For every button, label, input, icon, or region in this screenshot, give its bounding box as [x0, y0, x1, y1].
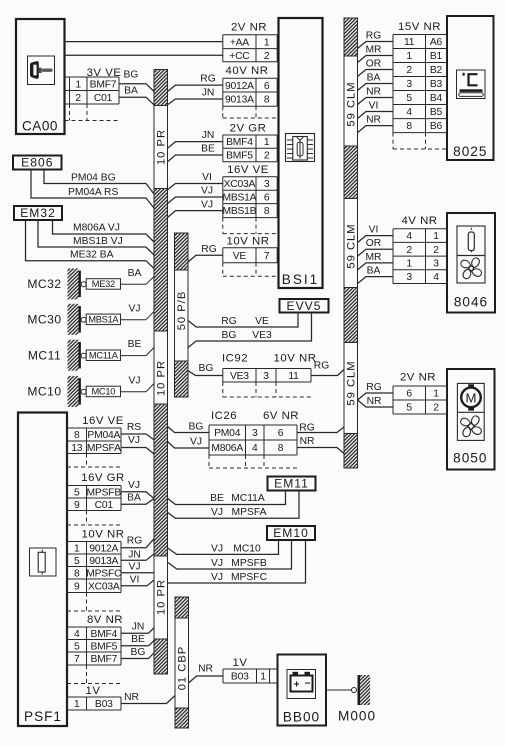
svg-text:5: 5	[74, 487, 80, 498]
svg-text:PM04: PM04	[214, 428, 241, 439]
svg-text:MC10: MC10	[91, 387, 115, 397]
svg-text:1V: 1V	[86, 685, 101, 697]
svg-text:1: 1	[75, 79, 81, 90]
svg-text:RG: RG	[127, 536, 142, 547]
svg-text:PM04A RS: PM04A RS	[68, 187, 118, 198]
connector table 1V on PSF1 (1 B03)	[67, 685, 121, 710]
svg-text:2: 2	[264, 151, 270, 162]
svg-text:40V NR: 40V NR	[226, 65, 269, 77]
svg-text:7: 7	[74, 654, 80, 665]
connector EM11	[268, 476, 316, 490]
svg-text:VE3: VE3	[230, 371, 249, 382]
svg-text:59 CLM: 59 CLM	[346, 223, 358, 268]
fan unit 8046	[447, 213, 495, 313]
svg-text:13: 13	[71, 443, 83, 454]
svg-text:9012A: 9012A	[225, 81, 254, 92]
svg-text:01 CBP: 01 CBP	[177, 646, 189, 691]
svg-text:RG: RG	[366, 382, 381, 393]
wire RG (59 CLM bus to 8025 pin A6)	[358, 30, 394, 48]
svg-text:RG: RG	[299, 423, 314, 434]
svg-text:MBS1B VJ: MBS1B VJ	[73, 236, 123, 247]
svg-text:BMF4: BMF4	[226, 137, 253, 148]
svg-text:NR: NR	[124, 692, 139, 703]
svg-text:1: 1	[433, 231, 439, 242]
wire PM04 BG (bus to IC26)	[168, 422, 210, 433]
wire XC03A VI (bus to BSI1)	[168, 172, 223, 190]
wire RG (59 CLM bus to 8050 pin 1)	[358, 382, 394, 400]
svg-text:VJ: VJ	[211, 572, 223, 583]
wire C01 BA (CA00 pin2 to bus)	[119, 86, 154, 105]
svg-text:MC32: MC32	[27, 277, 61, 291]
svg-text:16V GR: 16V GR	[81, 472, 125, 484]
svg-text:PM04 BG: PM04 BG	[71, 173, 116, 184]
svg-text:RG: RG	[200, 74, 215, 85]
svg-text:MPSFA: MPSFA	[87, 443, 121, 454]
svg-text:10V NR: 10V NR	[274, 353, 317, 365]
svg-text:MR: MR	[365, 252, 381, 263]
svg-text:5: 5	[74, 641, 80, 652]
svg-text:CA00: CA00	[22, 119, 58, 134]
wire MPSFA VJ (bus to EM11)	[168, 491, 300, 519]
svg-text:2: 2	[406, 65, 412, 76]
connector table 16V GR on PSF1 (5 MPSFB / 9 C01)	[67, 472, 125, 525]
wire PM04A RS (PSF1 to bus)	[121, 422, 154, 440]
svg-text:A6: A6	[430, 37, 443, 48]
wire PM04 BG (E806 to bus)	[44, 170, 154, 195]
svg-text:EM10: EM10	[273, 526, 309, 540]
svg-text:BG: BG	[222, 330, 237, 341]
svg-text:9012A: 9012A	[89, 543, 118, 554]
connector IC92 table 10V NR (VE3 3 11)	[222, 353, 316, 398]
wire RG (IC92 to 59 CLM bus)	[311, 361, 344, 376]
wire 9012A RG (PSF1 to bus)	[121, 536, 154, 548]
wire BMF5 BE (PSF1 to bus)	[121, 634, 154, 646]
svg-text:M806A VJ: M806A VJ	[73, 223, 120, 234]
svg-text:VE3: VE3	[252, 330, 272, 341]
svg-text:B2: B2	[430, 65, 443, 76]
ground M000	[326, 675, 376, 724]
svg-text:2: 2	[433, 245, 439, 256]
svg-text:3: 3	[264, 179, 270, 190]
svg-text:MC10: MC10	[27, 385, 61, 399]
svg-text:1: 1	[264, 37, 270, 48]
svg-text:B6: B6	[430, 121, 443, 132]
wire C01 BA (PSF1 to bus)	[121, 492, 154, 504]
display unit 8025	[447, 16, 494, 160]
svg-text:BA: BA	[367, 265, 381, 276]
wire MBS1A VJ (bus to BSI1)	[168, 186, 223, 204]
wire BMF4 JN (PSF1 to bus)	[121, 622, 154, 634]
svg-text:M: M	[466, 390, 477, 405]
svg-text:VJ: VJ	[201, 199, 213, 210]
wire MBS1B VJ (bus to BSI1)	[168, 199, 223, 217]
svg-text:5: 5	[74, 556, 80, 567]
wire MC10 VJ (bus to EM10)	[168, 540, 279, 554]
svg-text:VE: VE	[233, 251, 247, 262]
svg-text:MPSFB: MPSFB	[87, 487, 122, 498]
wire MR (59 CLM bus to 8046 pin 3)	[358, 252, 394, 270]
svg-text:RS: RS	[127, 422, 141, 433]
svg-text:4: 4	[252, 443, 258, 454]
svg-text:MBS1A: MBS1A	[222, 193, 256, 204]
svg-text:10 PR: 10 PR	[156, 360, 168, 396]
svg-text:E806: E806	[21, 155, 53, 169]
svg-text:9: 9	[74, 581, 80, 592]
svg-text:JN: JN	[202, 88, 215, 99]
svg-text:OR: OR	[366, 58, 381, 69]
svg-text:BE: BE	[201, 144, 215, 155]
svg-text:B1: B1	[430, 51, 443, 62]
svg-text:ME32 BA: ME32 BA	[70, 249, 114, 260]
svg-text:BE: BE	[210, 493, 224, 504]
svg-text:BG: BG	[131, 647, 146, 658]
svg-text:BMF7: BMF7	[90, 79, 117, 90]
svg-text:MBS1B: MBS1B	[222, 206, 256, 217]
svg-text:3: 3	[252, 428, 258, 439]
wire NR (59 CLM bus to 8050 pin 2)	[358, 396, 394, 407]
svg-text:59 CLM: 59 CLM	[346, 81, 358, 126]
svg-text:BE: BE	[131, 634, 145, 645]
connector table 40V NR on BSI1 (9012A 6 / 9013A 8)	[223, 65, 277, 118]
svg-text:1V: 1V	[233, 657, 248, 669]
wire VI (59 CLM bus to 8025 pin B5)	[358, 100, 394, 118]
8025 icon	[457, 70, 486, 99]
svg-text:1: 1	[260, 672, 266, 683]
svg-text:RG: RG	[201, 244, 216, 255]
svg-text:2V NR: 2V NR	[231, 21, 267, 33]
wire MPSFC VJ (PSF1 to bus)	[121, 561, 154, 573]
svg-text:BB00: BB00	[283, 710, 320, 725]
wire VI (59 CLM bus to 8046 pin 1)	[358, 224, 394, 242]
wire +AA (CA00 to BSI1)	[65, 41, 223, 43]
wire 9013A JN (PSF1 to bus)	[121, 549, 154, 560]
connector table 10V NR on PSF1 (1 9012A / 5 9013A / 8 MPSFC / 9 XC03A)	[67, 529, 124, 612]
8050 icon (motor + fan)	[457, 383, 484, 440]
svg-text:−: −	[305, 679, 311, 690]
wire VE RG (EVV5 to 50 P/B bus)	[188, 313, 298, 328]
svg-text:NR: NR	[300, 436, 315, 447]
fuse box PSF1	[18, 413, 67, 727]
wire 9012A RG (bus to BSI1)	[168, 74, 223, 92]
wire BMF5 BE (bus to BSI1)	[168, 144, 223, 162]
svg-text:6V NR: 6V NR	[263, 410, 299, 422]
svg-text:BA: BA	[127, 492, 141, 503]
svg-text:6: 6	[264, 81, 270, 92]
svg-text:B03: B03	[95, 699, 113, 710]
wire NR (IC26 to 59 CLM bus)	[297, 436, 344, 454]
wire B03 NR (01 CBP bus to battery table)	[189, 664, 224, 684]
svg-text:MPSFA: MPSFA	[232, 507, 267, 518]
svg-text:2: 2	[406, 245, 412, 256]
svg-text:3: 3	[406, 272, 412, 283]
svg-text:IC26: IC26	[211, 410, 237, 422]
svg-text:MC30: MC30	[27, 313, 61, 327]
svg-text:RG: RG	[366, 30, 381, 41]
svg-text:VI: VI	[369, 224, 379, 235]
wire VE3 BG (EVV5 to 50 P/B bus)	[188, 313, 312, 348]
svg-text:B4: B4	[430, 93, 443, 104]
BB00 battery icon	[287, 670, 316, 699]
svg-text:JN: JN	[128, 549, 141, 560]
svg-text:16V VE: 16V VE	[82, 415, 124, 427]
svg-text:MPSFB: MPSFB	[231, 558, 267, 569]
svg-text:4: 4	[406, 231, 412, 242]
svg-text:6: 6	[278, 428, 284, 439]
svg-text:11: 11	[404, 37, 415, 48]
body control unit BSI1	[279, 18, 323, 288]
svg-text:8046: 8046	[454, 295, 488, 310]
svg-text:2V NR: 2V NR	[400, 371, 436, 383]
svg-text:RG: RG	[314, 361, 329, 372]
wire RG (IC26 to 59 CLM bus)	[297, 423, 344, 434]
solenoid valve EVV5	[280, 299, 329, 313]
svg-text:MPSFC: MPSFC	[86, 568, 122, 579]
svg-text:+CC: +CC	[229, 51, 250, 62]
svg-text:6: 6	[264, 193, 270, 204]
connector E806	[13, 155, 62, 169]
svg-text:BSI1: BSI1	[282, 272, 319, 287]
svg-text:+: +	[294, 680, 300, 691]
svg-text:JN: JN	[202, 130, 215, 141]
svg-text:8: 8	[264, 206, 270, 217]
svg-text:BG: BG	[189, 422, 204, 433]
svg-text:4: 4	[433, 272, 439, 283]
connector table 2V NR on 8050	[393, 371, 447, 414]
connector table 3V VE on CA00 (pins 1 BMF7 / 2 C01)	[65, 67, 122, 121]
svg-text:VJ: VJ	[211, 507, 223, 518]
wire OR (59 CLM bus to 8025 pin B2)	[358, 58, 394, 76]
svg-text:BMF4: BMF4	[90, 629, 117, 640]
svg-text:10 PR: 10 PR	[156, 579, 168, 615]
svg-text:5: 5	[406, 93, 412, 104]
ignition switch CA00	[16, 19, 65, 134]
svg-text:8: 8	[74, 568, 80, 579]
svg-text:NR: NR	[366, 86, 381, 97]
svg-text:11: 11	[288, 371, 299, 382]
svg-text:1: 1	[406, 51, 412, 62]
svg-text:3: 3	[433, 259, 439, 270]
svg-text:VJ: VJ	[201, 186, 213, 197]
svg-text:BMF7: BMF7	[90, 654, 117, 665]
interconnect bus 59 CLM	[344, 18, 358, 468]
wire 9013A JN (bus to BSI1)	[168, 88, 223, 105]
svg-text:10V NR: 10V NR	[82, 529, 125, 541]
svg-text:1: 1	[74, 699, 80, 710]
svg-text:PM04A: PM04A	[87, 430, 120, 441]
connector table 16V VE on BSI1 (XC03A 3 / MBS1A 6 / MBS1B 8)	[222, 164, 277, 234]
connector table 10V NR on BSI1 (VE 7)	[223, 235, 277, 276]
svg-text:BG: BG	[124, 70, 139, 81]
PSF1 fuse icon	[30, 548, 57, 576]
motor fan unit 8050	[447, 369, 495, 470]
ground MC30 (MBS1A VJ)	[27, 303, 154, 335]
svg-text:C01: C01	[94, 93, 113, 104]
wire B03 NR (PSF1 to 01 CBP bus)	[121, 692, 175, 704]
svg-text:EM32: EM32	[20, 206, 56, 220]
svg-text:1: 1	[264, 137, 270, 148]
ground MC10 (MC10 VJ)	[27, 375, 154, 407]
svg-text:3: 3	[263, 371, 269, 382]
svg-text:EVV5: EVV5	[287, 299, 322, 313]
battery BB00	[278, 655, 327, 726]
svg-text:2: 2	[75, 93, 81, 104]
svg-text:59 CLM: 59 CLM	[346, 360, 358, 405]
svg-text:OR: OR	[366, 238, 381, 249]
svg-text:VJ: VJ	[128, 435, 140, 446]
svg-text:9013A: 9013A	[89, 556, 118, 567]
wire BMF7 BG (CA00 pin1 to bus)	[119, 70, 154, 92]
svg-text:1: 1	[433, 389, 439, 400]
svg-text:B5: B5	[430, 107, 443, 118]
svg-text:MR: MR	[365, 44, 381, 55]
wire XC03A VI (PSF1 to bus)	[121, 574, 154, 586]
svg-text:BMF5: BMF5	[90, 641, 117, 652]
wire ME32 BA (EM32 to bus)	[26, 220, 155, 269]
wire MPSFB VJ (bus to EM10)	[168, 540, 292, 569]
svg-text:50 P/B: 50 P/B	[176, 291, 188, 331]
svg-text:MC11A: MC11A	[89, 351, 119, 361]
wire M806A VJ (bus to IC26)	[168, 437, 210, 448]
wire MBS1B VJ (EM32 to bus)	[38, 220, 154, 255]
wire MPSFC VJ (bus to EM10)	[168, 540, 306, 583]
svg-text:8050: 8050	[453, 451, 487, 466]
wire MPSFB VJ (PSF1 to bus)	[121, 480, 154, 499]
svg-text:BA: BA	[367, 72, 381, 83]
wire MR (59 CLM bus to 8025 pin B1)	[358, 44, 394, 62]
svg-text:10V NR: 10V NR	[227, 235, 270, 247]
connector table 2V NR on BSI1 (+AA 1 / +CC 2)	[223, 21, 277, 62]
interconnect bus 50 P/B	[175, 233, 189, 397]
svg-text:8: 8	[74, 430, 80, 441]
svg-text:7: 7	[264, 251, 270, 262]
svg-text:MC10: MC10	[233, 543, 261, 554]
svg-text:4V NR: 4V NR	[401, 215, 437, 227]
svg-text:C01: C01	[95, 500, 114, 511]
wire BMF7 BG (PSF1 to bus)	[121, 647, 154, 659]
svg-text:ME32: ME32	[92, 279, 115, 289]
svg-text:MBS1A: MBS1A	[88, 315, 119, 325]
svg-text:MC11: MC11	[28, 349, 61, 363]
svg-text:VE: VE	[255, 316, 269, 327]
connector table 4V NR on 8046	[393, 215, 447, 284]
svg-text:NR: NR	[366, 114, 381, 125]
connector IC26 table 6V NR (PM04 3 6 / M806A 4 8)	[209, 410, 299, 468]
svg-text:BE: BE	[128, 339, 142, 350]
svg-text:VJ: VJ	[211, 543, 223, 554]
svg-text:9013A: 9013A	[225, 95, 254, 106]
wire M806A VJ (EM32 to bus)	[53, 220, 155, 242]
wire NR (59 CLM bus to 8025 pin B6)	[358, 114, 394, 132]
svg-text:1: 1	[74, 543, 80, 554]
svg-text:8: 8	[406, 121, 412, 132]
svg-text:EM11: EM11	[274, 476, 309, 490]
wire NR (59 CLM bus to 8025 pin B4)	[358, 86, 394, 104]
svg-text:4: 4	[74, 629, 80, 640]
svg-text:BA: BA	[128, 268, 142, 279]
ground MC32 (ME32 BA)	[27, 268, 154, 300]
svg-text:9: 9	[74, 500, 80, 511]
svg-text:VJ: VJ	[211, 558, 223, 569]
svg-text:M000: M000	[338, 709, 376, 724]
BSI1 icon	[286, 134, 315, 162]
wire MC11A BE (bus to EM11)	[168, 491, 286, 505]
svg-text:8: 8	[264, 95, 270, 106]
connector table 2V GR on BSI1 (BMF4 1 / BMF5 2)	[223, 122, 277, 162]
wire BA (59 CLM bus to 8025 pin B3)	[358, 72, 394, 90]
svg-text:8025: 8025	[453, 144, 487, 159]
8046 icon (resistor + fan)	[457, 226, 485, 283]
svg-text:1: 1	[406, 259, 412, 270]
svg-text:4: 4	[406, 107, 412, 118]
svg-text:MC11A: MC11A	[231, 493, 265, 504]
svg-text:M806A: M806A	[211, 443, 243, 454]
connector EM32	[14, 206, 62, 220]
svg-text:XC03A: XC03A	[224, 179, 256, 190]
wire +CC (CA00 to BSI1)	[65, 54, 223, 56]
wire BMF4 JN (bus to BSI1)	[168, 130, 223, 148]
connector table 16V VE on PSF1 (8 PM04A / 13 MPSFA)	[67, 415, 124, 467]
svg-text:B3: B3	[430, 79, 443, 90]
connector EM10	[267, 526, 315, 540]
connector table 1V B03 (battery feed)	[223, 657, 278, 683]
svg-text:2: 2	[433, 403, 439, 414]
svg-text:VJ: VJ	[128, 561, 140, 572]
wire OR (59 CLM bus to 8046 pin 2)	[358, 238, 394, 256]
svg-text:IC92: IC92	[222, 353, 248, 365]
svg-text:NR: NR	[198, 664, 213, 675]
wire BA (59 CLM bus to 8046 pin 4)	[358, 265, 394, 283]
interconnect bus 01 CBP	[175, 597, 189, 728]
svg-text:BG: BG	[199, 363, 214, 374]
svg-text:MPSFC: MPSFC	[231, 572, 268, 583]
svg-text:VI: VI	[369, 100, 379, 111]
svg-text:2V GR: 2V GR	[230, 122, 267, 134]
svg-text:VJ: VJ	[190, 437, 202, 448]
svg-text:BMF5: BMF5	[226, 151, 253, 162]
svg-text:NR: NR	[367, 396, 382, 407]
svg-text:+AA: +AA	[230, 37, 249, 48]
svg-text:JN: JN	[132, 622, 145, 633]
svg-text:B03: B03	[231, 672, 249, 683]
svg-text:VJ: VJ	[128, 375, 140, 386]
connector table 15V NR on 8025	[393, 21, 447, 149]
svg-text:VJ: VJ	[128, 303, 140, 314]
svg-text:8: 8	[278, 443, 284, 454]
svg-text:VI: VI	[130, 574, 140, 585]
CA00 key icon	[28, 56, 55, 85]
wire VE3 BG (50 P/B bus to IC92)	[188, 363, 223, 376]
svg-text:VI: VI	[202, 172, 212, 183]
svg-text:RG: RG	[221, 316, 236, 327]
connector table 8V NR on PSF1 (4 BMF4 / 5 BMF5 / 7 BMF7)	[67, 614, 123, 684]
svg-text:XC03A: XC03A	[88, 581, 120, 592]
svg-text:15V NR: 15V NR	[398, 21, 441, 33]
wire PM04A RS (E806 to bus)	[31, 170, 154, 209]
svg-text:BA: BA	[124, 86, 138, 97]
svg-text:2: 2	[264, 51, 270, 62]
wire VE RG (50 P/B bus to BSI1 pin7)	[188, 244, 223, 262]
svg-text:3: 3	[406, 79, 412, 90]
ground MC11 (MC11A BE)	[28, 339, 154, 371]
svg-text:6: 6	[406, 389, 412, 400]
interconnect bus 10 PR	[154, 70, 168, 675]
wire MPSFA VJ (PSF1 to bus)	[121, 435, 154, 454]
svg-text:VJ: VJ	[128, 480, 140, 491]
svg-text:10 PR: 10 PR	[156, 129, 168, 165]
svg-text:16V VE: 16V VE	[227, 164, 269, 176]
svg-text:PSF1: PSF1	[24, 709, 62, 724]
svg-text:5: 5	[406, 403, 412, 414]
